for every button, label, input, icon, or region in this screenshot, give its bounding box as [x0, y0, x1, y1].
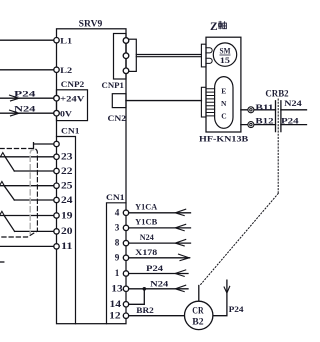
- wire CN1 pin 24: [14, 199, 56, 201]
- wire CN1 pin 20: [15, 230, 57, 232]
- encoder ENC pill: [215, 77, 233, 129]
- terminal CN1-20: [54, 229, 59, 234]
- wire CN1 pin 8 N24: [126, 242, 191, 244]
- dotted connector centerline: [277, 99, 279, 194]
- svg-text:19: 19: [61, 210, 73, 220]
- wire N24 right of CRB2: [281, 109, 307, 111]
- svg-text:N24: N24: [140, 233, 154, 242]
- wire motor B11 to CRB2: [241, 109, 276, 111]
- svg-text:CR: CR: [192, 307, 204, 317]
- limit switch blade 25-24: [4, 186, 14, 200]
- svg-text:20: 20: [61, 226, 73, 236]
- junction dot pins 13-14: [143, 287, 147, 291]
- svg-text:0V: 0V: [60, 109, 73, 119]
- wire CN1 pin 4 Y1CA: [126, 212, 191, 214]
- svg-text:24: 24: [61, 195, 73, 205]
- arrow X178 out: [179, 254, 190, 260]
- connector CN1 left box: [57, 137, 76, 324]
- svg-text:P24: P24: [229, 305, 244, 314]
- svg-text:L1: L1: [60, 36, 72, 46]
- svg-text:Z: Z: [210, 21, 218, 33]
- svg-text:25: 25: [61, 181, 73, 191]
- dashed cam box (dog): [0, 149, 37, 238]
- terminal CNP1 pin c: [123, 68, 129, 74]
- terminal CN1-14: [123, 302, 128, 307]
- svg-text:22: 22: [61, 166, 73, 176]
- wire relay to P24 riser: [213, 280, 227, 316]
- wire CN1 pin 19: [0, 215, 57, 217]
- motor power plug: [201, 44, 206, 67]
- relay coil CR B2 circle: [185, 301, 213, 329]
- svg-text:BR2: BR2: [136, 306, 154, 315]
- svg-text:N24: N24: [14, 103, 36, 113]
- terminal B12 double circle: [248, 122, 254, 128]
- limit switch contact 23 caret: [0, 153, 5, 157]
- svg-text:X178: X178: [135, 248, 157, 257]
- svg-text:P24: P24: [146, 264, 163, 273]
- arrow on P24 wire: [10, 95, 20, 101]
- terminal 0V: [54, 110, 60, 116]
- encoder connector plug: [201, 87, 206, 117]
- terminal CN1-24: [54, 197, 59, 202]
- terminal L2: [54, 67, 59, 72]
- wire CN1 pin 3 Y1CB: [126, 227, 191, 229]
- svg-text:C: C: [221, 111, 226, 120]
- limit switch contact 19 caret: [0, 211, 4, 215]
- motor symbol SM circle: [213, 43, 236, 66]
- arrow on N24 wire: [10, 110, 20, 116]
- terminal CN1-1: [123, 271, 128, 276]
- arrow N24 pin8: [175, 240, 186, 246]
- wire CN1 pin 23: [0, 156, 57, 158]
- terminal CN1-12: [123, 313, 128, 318]
- connector CNP2 box: [57, 90, 88, 121]
- arrow Y1CA: [175, 209, 186, 215]
- terminal CN1-23: [54, 154, 59, 159]
- svg-text:CRB2: CRB2: [265, 88, 289, 98]
- svg-text:CNP2: CNP2: [61, 79, 84, 89]
- svg-text:N24: N24: [150, 280, 168, 289]
- arrow Y1CB: [175, 224, 186, 230]
- terminal CN1-3: [123, 225, 128, 230]
- connector CNP1 right box: [126, 39, 136, 71]
- terminal CN1-13: [123, 286, 128, 291]
- terminal CN1-19: [54, 213, 59, 218]
- wire N24 to 0V: [0, 112, 57, 114]
- svg-text:SRV9: SRV9: [79, 20, 103, 30]
- servo motor body HF-KN13B: [206, 37, 241, 132]
- terminal CN1-25: [54, 183, 59, 188]
- encoder wire CN2 to motor: [126, 100, 201, 102]
- arrow N24 pin13: [175, 285, 186, 291]
- wire P24 right of CRB2: [281, 124, 307, 126]
- svg-text:13: 13: [111, 283, 123, 293]
- svg-text:SM: SM: [220, 47, 231, 56]
- terminal CN1-8: [123, 240, 128, 245]
- connector CNP1 left box: [114, 34, 127, 80]
- svg-text:P24: P24: [281, 116, 299, 125]
- svg-text:CN1: CN1: [61, 125, 80, 135]
- svg-text:B12: B12: [255, 117, 273, 126]
- wire L2: [0, 69, 57, 71]
- wire riser into relay CR B2: [198, 286, 200, 302]
- svg-text:N: N: [221, 99, 227, 108]
- svg-text:B11: B11: [255, 103, 273, 112]
- svg-text:N24: N24: [284, 99, 302, 108]
- dotted diagonal link to relay CR B2: [200, 194, 278, 286]
- svg-text:E: E: [221, 86, 226, 95]
- terminal B11 double circle: [248, 107, 254, 113]
- svg-text:11: 11: [61, 241, 73, 251]
- wire CN1 pin 12 BR2 to relay: [126, 315, 185, 317]
- tick mark left margin: [0, 261, 4, 263]
- svg-text:12: 12: [109, 310, 121, 320]
- kanji axis (軸) drawn as strokes: [218, 21, 226, 29]
- wire CN1 pin 9 X178: [126, 257, 190, 259]
- svg-text:CNP1: CNP1: [102, 80, 124, 90]
- wire P24 to +24V: [0, 97, 57, 99]
- svg-text:9: 9: [115, 252, 120, 262]
- terminal CN1-11: [54, 244, 59, 249]
- svg-text:+24V: +24V: [60, 94, 86, 104]
- terminal CNP1 pin b: [123, 53, 129, 59]
- terminal L1: [54, 38, 59, 43]
- plug contact bump lower: [206, 58, 212, 63]
- terminal CNP1 pin a: [123, 38, 129, 44]
- svg-text:L2: L2: [60, 65, 72, 75]
- arrow P24 pin1: [175, 270, 186, 276]
- servo amplifier block SRV9 outline: [57, 29, 127, 324]
- svg-text:23: 23: [61, 152, 73, 162]
- svg-text:Y1CB: Y1CB: [135, 218, 158, 227]
- limit switch contact 25 caret: [0, 182, 4, 186]
- terminal CN1 top: [54, 141, 59, 146]
- svg-text:8: 8: [115, 238, 120, 248]
- wire CN1 pin 1 P24: [126, 273, 188, 275]
- svg-text:B2: B2: [192, 317, 204, 327]
- limit switch blade 23-22: [5, 157, 14, 171]
- terminal CN1-9: [123, 255, 128, 260]
- svg-text:CN1: CN1: [106, 192, 125, 202]
- wire CN1 pin 25: [0, 185, 57, 187]
- arrow down on P24 riser: [224, 286, 230, 293]
- svg-text:3: 3: [115, 223, 120, 233]
- gray dashed actuator line: [30, 150, 33, 234]
- wire CN1 pin 22: [14, 170, 56, 172]
- wire CN1 pin top with stub to dashed cam box: [34, 143, 57, 149]
- svg-text:1: 1: [115, 268, 120, 278]
- plug contact bump upper: [206, 48, 212, 53]
- terminal CN1-4: [123, 210, 128, 215]
- connector CN1 right box: [107, 203, 127, 324]
- terminal +24V: [54, 95, 60, 101]
- wire L1: [0, 39, 57, 41]
- limit switch blade 19-20: [4, 216, 14, 232]
- wire CN1 pin 13 N24: [126, 288, 188, 290]
- wire CN1 pin 11: [0, 245, 57, 247]
- svg-text:P24: P24: [14, 88, 37, 98]
- svg-text:4: 4: [115, 207, 120, 217]
- connector CRB2 pair lines: [276, 101, 281, 132]
- wire CN1 pin 14 jumper to pin 13: [126, 289, 144, 305]
- svg-text:HF-KN13B: HF-KN13B: [199, 135, 249, 144]
- motor power double wire CNP1 to motor plug: [136, 55, 201, 57]
- terminal CN1-22: [54, 168, 59, 173]
- svg-text:14: 14: [110, 299, 122, 309]
- encoder connector hatch pins: [206, 89, 215, 116]
- svg-text:CN2: CN2: [108, 113, 127, 123]
- connector CN2 box: [112, 94, 126, 108]
- svg-text:Y1CA: Y1CA: [135, 202, 157, 211]
- wire motor B12 to CRB2: [241, 124, 276, 126]
- svg-text:15: 15: [220, 56, 230, 65]
